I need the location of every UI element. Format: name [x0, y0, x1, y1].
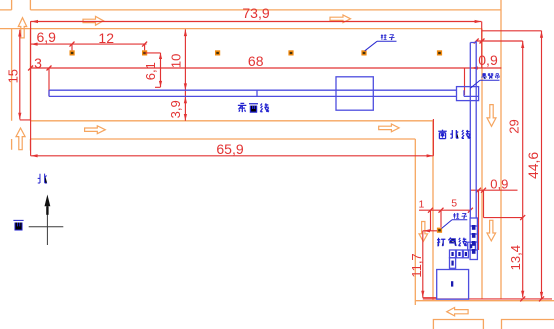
tick dim 5 right — [468, 208, 473, 213]
arrowhead 29 top — [521, 41, 524, 48]
arrowhead 65,9 left — [31, 154, 38, 157]
chain mark 2 — [472, 233, 476, 238]
wire witness drop x441 — [440, 210, 442, 227]
compass horizontal line — [29, 226, 64, 228]
label packing line (打包线) — [437, 238, 467, 246]
wire dim 0,9 middle line — [471, 189, 518, 191]
wire right extension of 73,9 — [481, 22, 483, 69]
wire conveyor left end cap — [48, 90, 50, 96]
wire dim 10 and 3,9 line — [184, 29, 186, 121]
packing row box 2 — [456, 250, 462, 258]
pillar P4 — [288, 50, 293, 55]
wire bottom road line — [415, 300, 554, 302]
pillar P2 — [142, 50, 147, 55]
wire left wall extension line — [30, 21, 32, 156]
wire witness line x478.5 — [478, 190, 480, 250]
svg-text:15: 15 — [5, 69, 20, 83]
arrow south on right road upper — [487, 105, 496, 127]
wire witness line x483.5 — [483, 190, 485, 217]
tick 0,9 mid right — [481, 188, 486, 193]
label zhuzi top (柱子) — [381, 34, 395, 40]
svg-text:11,7: 11,7 — [409, 253, 424, 277]
wire east-west conveyor upper line — [49, 89, 457, 91]
arrowhead 73,9 left — [31, 20, 38, 23]
wire dim 3 and 68 line — [31, 67, 502, 69]
wire right extension of 65,9 — [432, 119, 434, 156]
arrowhead 44,6 top — [540, 31, 543, 38]
pillar P6 — [437, 50, 442, 55]
packing row box 3 — [463, 250, 468, 258]
tick 0,9 top right — [480, 39, 485, 44]
label east-west line (东西线) — [238, 103, 269, 112]
row box 3 mark — [465, 252, 467, 256]
leader pillar label bottom — [442, 220, 468, 229]
svg-text:29: 29 — [507, 119, 522, 133]
wire packing road east line — [432, 121, 434, 301]
svg-text:6,9: 6,9 — [36, 29, 56, 45]
packing chain column outline — [470, 218, 477, 260]
wire dim 0,9 top line — [476, 40, 523, 42]
row box 2 mark — [458, 252, 460, 256]
pillar P3 — [215, 50, 220, 55]
big box mark — [451, 281, 453, 286]
arrow north on left road upper — [18, 18, 26, 38]
arrowhead 15 bottom — [18, 113, 21, 120]
wire left road west line — [11, 0, 13, 150]
row box 1 mark — [451, 252, 453, 256]
wire dim 65,9 line — [31, 155, 434, 157]
svg-text:6,1: 6,1 — [143, 62, 158, 80]
svg-text:44,6: 44,6 — [525, 152, 541, 179]
tick dim 1-5 middle — [439, 208, 444, 213]
wire dim 15 line — [20, 30, 31, 120]
packing row box 1 — [450, 250, 456, 258]
arrow west on bottom road — [447, 308, 468, 316]
svg-text:65,9: 65,9 — [216, 141, 243, 157]
arrowhead 15 top — [18, 30, 21, 37]
arrow south on packing road — [419, 222, 428, 242]
tick bottom line at 13,4 — [520, 296, 525, 301]
arrowhead 11,7 lower end — [421, 291, 424, 298]
wire dim 1 and 5 line — [419, 209, 470, 211]
wire pillar P7 witness line — [423, 230, 437, 232]
arrowhead 6,9 left — [31, 43, 38, 46]
wire divider 29 to 13,4 — [484, 217, 523, 219]
packing corner box — [468, 242, 476, 250]
arrowhead 13,4 bottom — [521, 291, 524, 298]
tick 0,9 mid left — [476, 188, 481, 193]
label north-south line (南北线) — [438, 130, 470, 139]
arrowhead 73,9 right — [475, 20, 482, 23]
arrowhead 6,1 top — [159, 53, 162, 59]
tick dim3 left — [28, 66, 33, 71]
wire lower road upper line — [30, 120, 433, 122]
wire dim 44,6 line — [541, 31, 543, 299]
neck mark — [451, 261, 453, 266]
arrow east on top road right — [330, 15, 351, 23]
compass vertical line — [46, 205, 48, 245]
wire dim 11,7 line — [423, 231, 437, 298]
leader pillar label top — [365, 41, 397, 51]
wire dim 6,1 line — [145, 53, 161, 87]
wire conveyor segment divider — [256, 90, 258, 96]
arrowhead 10 top — [184, 29, 187, 36]
arrowhead 3,9 bottom — [184, 114, 187, 121]
wire lower road lower line — [30, 138, 415, 140]
svg-text:12: 12 — [98, 30, 114, 46]
svg-text:73,9: 73,9 — [242, 5, 269, 21]
arrowhead 65,9 right — [427, 154, 434, 157]
arrowhead 3,9 top — [184, 96, 187, 103]
arrowhead 10 bottom — [184, 83, 187, 90]
packing neck box — [450, 258, 456, 269]
tick at pillar P2 dim — [142, 42, 147, 47]
compass north arrow — [45, 195, 51, 207]
machine box on conveyor — [336, 77, 373, 110]
wire dim 44,6 top extension — [482, 30, 542, 32]
wire north-south conveyor east line upper — [470, 41, 476, 218]
tick dim3 right / conveyor start — [47, 66, 52, 71]
svg-text:3,9: 3,9 — [168, 100, 183, 118]
svg-text:3: 3 — [34, 55, 42, 71]
arrowhead 68 right — [471, 66, 478, 69]
compass label west (西) — [13, 220, 23, 230]
packing big machine box — [437, 270, 469, 300]
wire right road west line — [481, 29, 483, 299]
compass label north (北) — [38, 174, 47, 183]
wire dim 29 and 13,4 line — [522, 41, 524, 298]
pillar P5 — [361, 50, 366, 55]
tick 0,9 top left — [474, 39, 479, 44]
building block bottom left outline — [433, 320, 483, 329]
wire witness drop x430.5 — [430, 210, 432, 231]
chain mark 1 — [472, 225, 476, 230]
wire north-south conveyor west line upper — [469, 43, 471, 219]
arrowhead 6,1 bottom — [159, 81, 162, 87]
chain mark 4 — [472, 249, 476, 254]
svg-text:5: 5 — [451, 198, 457, 210]
junction inner cap box — [464, 90, 479, 96]
wire left road east line — [29, 0, 31, 151]
wire bottom red boundary line — [423, 298, 552, 300]
label xuanbidiao (悬臂吊) — [482, 74, 500, 79]
pillar P7 near packing line — [437, 228, 442, 233]
arrow east on top road left — [83, 16, 104, 25]
arrow east on lower road right — [379, 124, 399, 132]
wire right road east line — [500, 0, 502, 299]
wire east-west conveyor lower line — [49, 95, 457, 97]
wire dim 73,9 line — [31, 21, 481, 23]
tick 29-13,4 divider — [520, 215, 525, 220]
arrow south on right road lower — [487, 220, 496, 241]
arrow east on lower road left — [85, 126, 106, 134]
arrow north on left road lower — [16, 128, 25, 150]
wire top road lower line — [0, 28, 482, 30]
wire junction witness line — [464, 68, 466, 95]
junction box outer — [457, 87, 479, 101]
tick dim 1 left — [428, 208, 433, 213]
svg-text:10: 10 — [169, 54, 184, 68]
building block bottom right outline — [502, 320, 554, 329]
arrowhead 44,6 bottom — [540, 292, 543, 299]
pillar P1 — [70, 50, 75, 55]
tick bottom line at 44,6 — [539, 296, 544, 301]
wire pillar P1 witness line — [71, 44, 73, 50]
svg-text:13,4: 13,4 — [508, 245, 523, 270]
wire dim 6,9 and 12 line — [31, 43, 147, 45]
svg-text:1: 1 — [418, 198, 424, 210]
wire top road upper line — [0, 9, 501, 11]
wire pillar P2 witness line — [144, 44, 146, 50]
svg-text:68: 68 — [248, 53, 264, 69]
svg-text:0,9: 0,9 — [478, 52, 498, 68]
label zhuzi bottom (柱子) — [453, 213, 467, 219]
wire conveyor start witness line — [48, 68, 50, 96]
chain mark 3 — [472, 241, 476, 246]
tick at pillar P1 dim — [70, 42, 75, 47]
svg-text:0,9: 0,9 — [490, 176, 508, 191]
corner box mark — [470, 244, 472, 248]
wire packing road west line — [414, 139, 416, 305]
leader cantilever crane label — [470, 80, 499, 88]
arrowhead 11,7 bottom horizontal — [423, 229, 430, 232]
